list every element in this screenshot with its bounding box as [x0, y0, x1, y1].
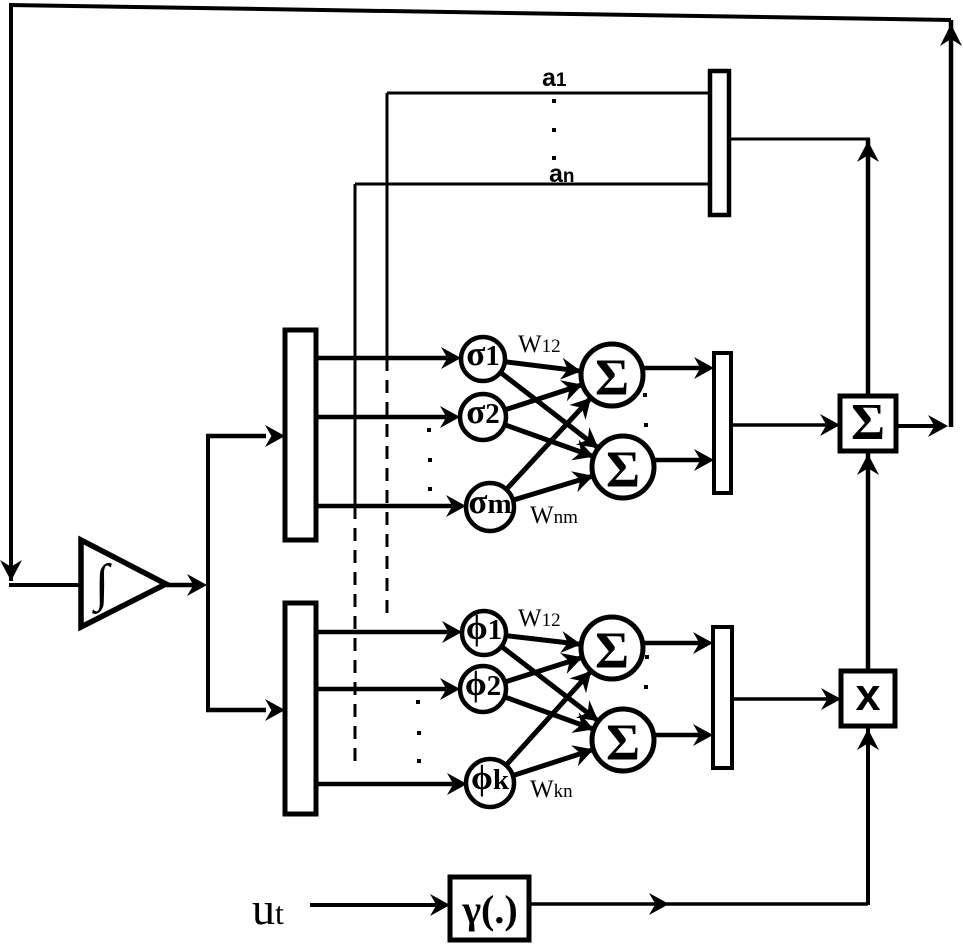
weights sigma layer to sum nodes — [500, 358, 598, 500]
svg-text:σ1: σ1 — [466, 334, 500, 373]
integral symbol — [92, 555, 112, 614]
sum box — [840, 394, 896, 451]
wire: right feedback riser — [949, 20, 954, 427]
gamma box — [450, 877, 529, 940]
sum node S22 — [592, 709, 654, 772]
svg-text:γ(.): γ(.) — [461, 887, 517, 932]
arrowhead: up into delay line — [857, 141, 879, 162]
svg-text:ϕk: ϕk — [471, 758, 510, 797]
svg-text:σm: σm — [468, 482, 511, 521]
wire: branch to lower input bar — [206, 708, 266, 713]
weights phi layer to sum nodes — [501, 631, 598, 776]
label W12 upper — [518, 331, 561, 358]
wire: an drop solid — [354, 184, 357, 506]
top delay bar — [710, 71, 729, 215]
wire: input to phi2 — [316, 678, 460, 700]
svg-text:σ2: σ2 — [466, 392, 500, 431]
svg-text:W12: W12 — [518, 331, 561, 358]
wire: top feedback line — [9, 5, 951, 20]
wire: S22 to lower output bar — [652, 724, 713, 746]
wire: a1 line — [387, 92, 710, 95]
upper input bar — [285, 330, 316, 540]
wire: gamma path riser — [866, 728, 870, 905]
neuron phik — [466, 758, 514, 807]
arrowhead: down into integrator input corner — [0, 560, 22, 581]
arrowhead: up into multiply box — [857, 729, 879, 750]
wire: input to sigmam — [316, 495, 466, 517]
arrowhead: up into sum box — [857, 454, 879, 475]
wire: delay bar output — [729, 138, 870, 141]
neuron phi1 — [462, 608, 506, 655]
wire: a1 drop solid — [386, 93, 389, 358]
sum node S12 — [592, 436, 654, 499]
wire: gamma box output — [529, 902, 868, 906]
svg-text:Σ: Σ — [851, 394, 885, 451]
neuron sigma2 — [460, 392, 506, 440]
label Wkn — [530, 776, 573, 803]
label a1 — [542, 64, 567, 92]
wire: branch vertical — [206, 436, 210, 710]
label ut — [252, 883, 284, 934]
dots between a1 and an — [552, 99, 556, 160]
svg-text:Σ: Σ — [595, 350, 629, 407]
upper output bar — [714, 353, 731, 493]
wire: S11 to upper output bar — [641, 357, 714, 379]
label an — [549, 160, 575, 188]
wire: S12 to upper output bar — [652, 449, 714, 471]
svg-text:Wkn: Wkn — [530, 776, 573, 803]
svg-text:Wnm: Wnm — [530, 502, 578, 529]
label Wnm — [530, 502, 578, 529]
arrowhead: on gamma output line — [649, 893, 669, 915]
lower input bar — [285, 603, 316, 814]
wire: multiply box to sum box — [866, 453, 871, 671]
label W12 lower — [518, 605, 561, 632]
wire: a1 drop dashed — [386, 358, 389, 622]
arrowhead: into upper input bar — [265, 425, 285, 447]
dots right of sum node S21 — [644, 655, 649, 689]
sum node S21 — [581, 617, 643, 680]
wire: an line — [355, 183, 710, 186]
lower output bar — [713, 627, 732, 768]
svg-text:ϕ1: ϕ1 — [466, 608, 502, 647]
svg-text:ϕ2: ϕ2 — [465, 664, 501, 703]
svg-text:x: x — [855, 669, 880, 720]
integrator triangle — [81, 540, 166, 627]
wire: integrator input segment — [9, 583, 80, 587]
neuron phi2 — [460, 664, 506, 712]
wire: an drop dashed — [354, 506, 357, 766]
svg-text:Σ: Σ — [606, 442, 640, 499]
wire: input to sigma1 — [316, 347, 461, 369]
dots between phi2 and phik — [416, 700, 421, 763]
dots between sigma2 and sigmam — [427, 428, 432, 491]
wire: ut to gamma box — [310, 894, 450, 916]
multiply box — [841, 669, 895, 726]
wire: input to phi1 — [316, 621, 462, 643]
svg-text:Σ: Σ — [595, 623, 629, 680]
neuron sigmam — [466, 482, 514, 531]
wire: riser sum-box to delay line — [866, 139, 871, 396]
wire: integrator output — [166, 583, 196, 588]
svg-text:Σ: Σ — [606, 715, 640, 772]
wire: sum box output — [896, 415, 948, 437]
wire: upper output bar to sum box — [731, 414, 840, 436]
wire: S21 to lower output bar — [641, 632, 713, 654]
wire: input to sigma2 — [316, 406, 460, 428]
neuron sigma1 — [461, 334, 505, 381]
sum node S11 — [581, 344, 643, 407]
wire: branch to upper input bar — [206, 434, 266, 439]
wire: left feedback line — [9, 4, 13, 581]
arrowhead: integrator output — [187, 574, 207, 596]
wire: lower output bar to multiply box — [732, 688, 841, 710]
wire: input to phik — [316, 773, 467, 795]
arrowhead: up at top-right corner — [940, 24, 962, 46]
arrowhead: into lower input bar — [265, 699, 285, 721]
svg-text:∫: ∫ — [92, 555, 112, 614]
dots right of sum node S11 — [643, 393, 648, 427]
svg-text:W12: W12 — [518, 605, 561, 632]
